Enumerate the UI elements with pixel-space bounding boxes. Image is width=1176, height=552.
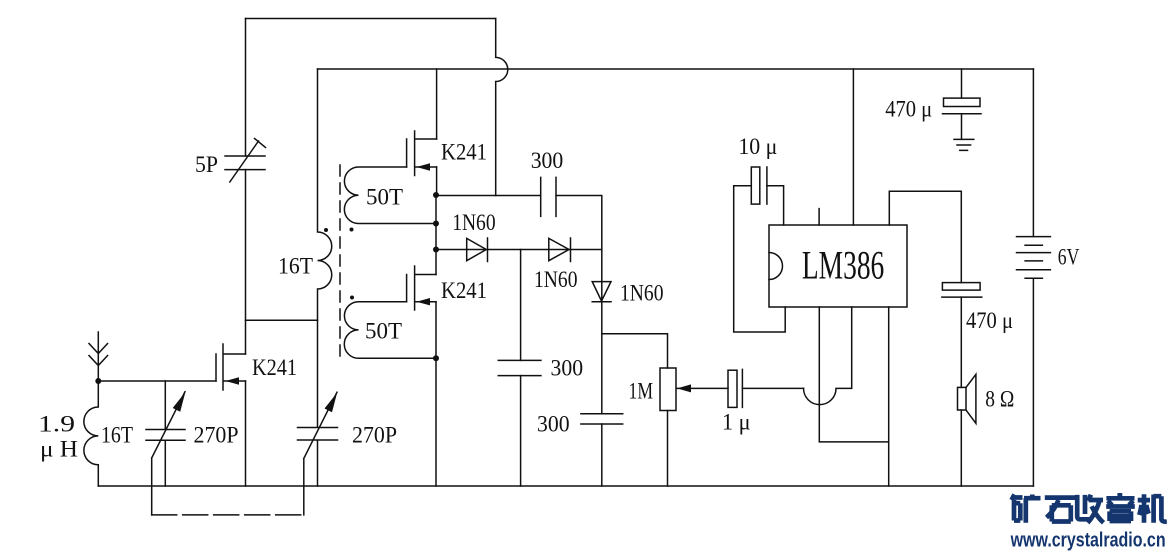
svg-text:1M: 1M — [629, 379, 654, 404]
speaker SP — [958, 387, 967, 410]
wire 10u left loop — [734, 186, 786, 332]
capacitor C-5P plates — [225, 156, 265, 170]
svg-text:470 μ: 470 μ — [966, 308, 1013, 333]
transformer secondary 50T no.1 — [344, 167, 436, 224]
gang dashed link — [152, 514, 304, 516]
char ji — [1138, 494, 1167, 523]
svg-text:1N60: 1N60 — [452, 210, 495, 235]
transistor Q3 K241 bottom — [407, 266, 436, 310]
wire bottom rail — [98, 485, 1033, 487]
wire column x520 — [520, 250, 522, 361]
svg-text:10 μ: 10 μ — [738, 134, 777, 159]
capacitor C-270P no.1 — [146, 381, 185, 486]
svg-text:1N60: 1N60 — [534, 267, 578, 292]
svg-text:470 μ: 470 μ — [885, 97, 932, 122]
arrow Q3 source — [417, 298, 431, 305]
char shou — [1077, 495, 1103, 523]
char shi — [1045, 498, 1075, 522]
svg-text:LM386: LM386 — [802, 243, 884, 288]
svg-text:1N60: 1N60 — [620, 281, 664, 306]
capacitor C-10u — [751, 167, 760, 204]
arrow Q2 source — [417, 163, 431, 170]
wire speaker to rail — [960, 410, 962, 486]
diode D2 1N60 — [549, 238, 571, 262]
wire top rail — [246, 18, 496, 20]
wire Q2 drain up — [436, 69, 438, 139]
svg-text:K241: K241 — [252, 355, 297, 380]
wire pin6 Vs — [852, 69, 854, 225]
wire node row y320 — [246, 319, 318, 321]
wire D3 down — [601, 302, 603, 414]
wire 1u to hop — [742, 387, 803, 389]
transformer secondary 50T no.2 — [344, 302, 436, 359]
svg-text:50T: 50T — [366, 185, 403, 210]
wire wiper — [677, 387, 728, 389]
capacitor C-300 series — [541, 177, 556, 216]
svg-text:270P: 270P — [194, 423, 239, 448]
wire 300 shunt1 to rail — [520, 376, 522, 486]
wire pin7 stub — [818, 209, 820, 225]
capacitor C-470u top — [961, 69, 963, 98]
arrow 270P no.1 — [173, 392, 186, 412]
capacitor C-5P trimmer arm — [230, 139, 266, 183]
battery BT 6V — [1017, 237, 1051, 279]
svg-text:μ H: μ H — [40, 437, 78, 462]
svg-text:K241: K241 — [441, 140, 487, 165]
svg-text:300: 300 — [551, 356, 584, 381]
svg-text:8 Ω: 8 Ω — [985, 387, 1014, 412]
svg-text:K241: K241 — [441, 278, 487, 303]
svg-text:300: 300 — [531, 148, 564, 173]
wire det row y195 — [436, 195, 541, 197]
node antenna junction — [95, 378, 101, 384]
svg-text:1.9: 1.9 — [38, 412, 75, 437]
wire 300 to corner — [556, 196, 602, 302]
svg-text:270P: 270P — [352, 423, 397, 448]
diode D3 1N60 vertical — [592, 282, 611, 302]
diode D1 1N60 — [436, 238, 602, 262]
wire 5P to FET1 drain — [245, 170, 247, 354]
capacitor C-1u — [728, 370, 737, 407]
node x436 dots — [433, 192, 439, 198]
wire pin5 out top — [889, 191, 961, 282]
capacitor C-270P no.1 arm — [152, 392, 185, 515]
svg-text:50T: 50T — [365, 319, 402, 344]
wire top rail y69 — [318, 68, 1034, 70]
arrow 270P no.2 — [325, 393, 338, 413]
watermark crystalradio logo — [1012, 494, 1167, 523]
op-amp U1 LM386 box — [769, 225, 907, 307]
capacitor C-300 shunt1 — [498, 360, 541, 375]
wire pin3 down — [819, 307, 888, 486]
wire antenna to gate — [98, 380, 216, 382]
wire 470u to speaker — [960, 297, 962, 387]
wire right edge — [1032, 69, 1034, 486]
svg-text:16T: 16T — [101, 423, 133, 448]
wire 5P column upper — [245, 19, 247, 157]
capacitor C-470u out — [942, 283, 980, 291]
char yin — [1106, 495, 1135, 521]
ground — [954, 139, 974, 150]
polarity dots — [324, 228, 328, 232]
transistor Q2 K241 top — [407, 131, 437, 176]
svg-text:16T: 16T — [278, 254, 313, 279]
capacitor C-270P no.2 arm — [304, 392, 337, 515]
wire Q2 source down — [436, 167, 438, 195]
transistor Q1 K241 — [216, 344, 246, 390]
transformer primary 16T — [318, 69, 332, 320]
potentiometer R-1M — [660, 368, 676, 411]
transformer core dashed — [339, 165, 341, 356]
arrow pot wiper — [677, 384, 691, 392]
antenna — [89, 332, 108, 381]
svg-text:6V: 6V — [1058, 245, 1080, 270]
capacitor C-300 shunt2 — [581, 414, 623, 424]
char kuang — [1012, 495, 1041, 523]
wire 300 shunt2 to rail — [601, 424, 603, 486]
capacitor C-270P no.2 — [298, 320, 338, 486]
svg-text:300: 300 — [537, 412, 570, 437]
wire Q1 source to rail — [245, 381, 247, 486]
wire to pot — [602, 334, 668, 368]
wire pot to rail — [667, 411, 669, 487]
wire x495 column with hop — [496, 19, 508, 196]
inductor L1 16T antenna coil — [84, 381, 98, 486]
wire junction column x436 — [435, 195, 437, 486]
wire pin8 and 10u loop — [767, 186, 784, 225]
arrow Q1 source — [226, 377, 240, 384]
wire hop2 — [804, 307, 852, 405]
svg-text:5P: 5P — [195, 152, 218, 177]
svg-text:www.crystalradio.cn: www.crystalradio.cn — [1010, 530, 1166, 552]
svg-text:1 μ: 1 μ — [722, 410, 751, 435]
